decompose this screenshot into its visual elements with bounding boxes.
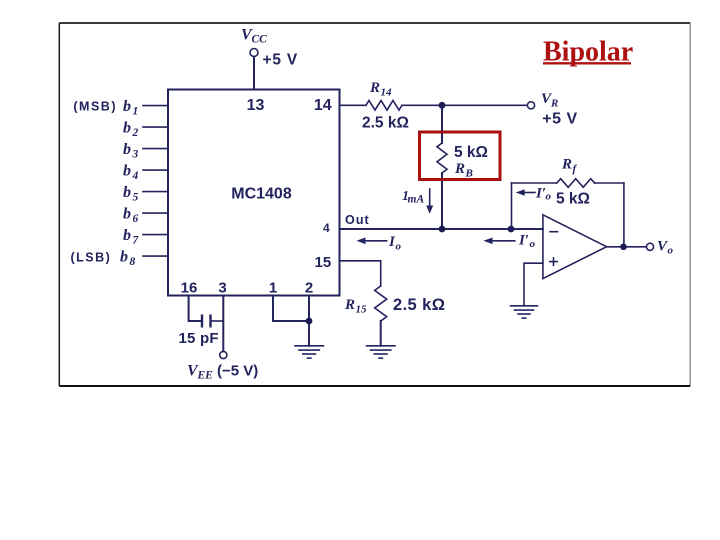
svg-text:4: 4 [323,221,330,235]
svg-text:1: 1 [133,106,139,118]
label I'o upper [535,186,552,203]
Vo terminal [646,243,653,250]
resistor R14 [366,101,402,111]
svg-text:b: b [123,141,131,158]
VCC terminal [250,49,258,57]
wire pin 16 down [189,296,202,322]
svg-text:2: 2 [305,280,313,297]
svg-text:b: b [123,162,131,179]
svg-text:14: 14 [381,87,393,99]
wire pin 1 down and right [273,296,309,322]
svg-text:o: o [546,190,552,202]
wire stub b2 [143,126,167,128]
svg-text:2.5 kΩ: 2.5 kΩ [393,296,445,314]
wire stub b7 [143,234,167,236]
label (LSB) b8 [71,248,136,268]
ground (op-amp plus input) [511,306,538,318]
wire stub b5 [143,191,167,193]
svg-text:5 kΩ: 5 kΩ [556,190,590,207]
wire stub b6 [143,212,167,214]
svg-text:b: b [123,205,131,222]
current arrow I'o upper (left) [516,189,535,196]
svg-text:15 pF: 15 pF [179,330,219,347]
svg-text:b: b [123,184,131,201]
current arrow 1mA (down) [426,189,433,214]
svg-text:b: b [123,119,131,136]
wire pin 15 to R15 [340,261,381,286]
current arrow I'o lower (left) [484,238,515,245]
node junction feedback/output [620,244,627,251]
label R14 [369,80,392,99]
svg-text:o: o [530,238,536,250]
svg-text:R: R [344,297,355,313]
svg-text:(MSB): (MSB) [73,100,117,114]
svg-text:o: o [396,241,402,253]
wire feedback down to output [623,183,625,247]
label b7 [123,227,140,247]
wire junction to RB [441,105,443,143]
wire pin 14 to R14 [340,104,366,106]
VR terminal [527,102,534,109]
svg-text:(−5 V): (−5 V) [217,362,258,379]
wire stub b8 [143,255,167,257]
svg-text:7: 7 [133,235,140,247]
wire stub b4 [143,169,167,171]
current arrow Io (left) [357,238,387,245]
label I'o lower [518,232,536,250]
svg-text:2.5 kΩ: 2.5 kΩ [362,115,409,132]
wire feedback top left segment [512,182,557,184]
node junction RB/out [439,226,446,233]
resistor RB [437,143,447,173]
svg-text:2: 2 [132,127,139,139]
wire pin 2 down to ground [308,296,310,346]
wire capacitor to pin 3 line [211,320,224,322]
svg-text:R: R [550,98,558,110]
wire RB to out node [441,173,443,229]
wire feedback top right segment [595,182,624,184]
highlight red box around RB [420,132,501,180]
svg-text:B: B [465,168,473,180]
svg-text:CC: CC [252,34,268,46]
label b4 [123,162,139,182]
node junction feedback/out [508,226,515,233]
svg-text:4: 4 [132,170,139,182]
svg-text:Out: Out [345,213,370,227]
svg-text:5 kΩ: 5 kΩ [454,144,488,161]
label Vo [657,239,674,257]
svg-text:16: 16 [181,280,198,297]
svg-text:R: R [369,80,380,96]
svg-text:13: 13 [247,97,265,114]
wire feedback up from out node [511,183,513,229]
label b6 [123,205,139,225]
resistor R15 [375,286,387,321]
wire pin 3 down to VEE [222,296,224,352]
label VR [541,91,558,110]
svg-text:15: 15 [356,304,368,316]
label (MSB) b1 [73,98,138,118]
svg-text:14: 14 [314,97,332,114]
svg-text:EE: EE [197,369,214,381]
node junction pin1/pin2 [306,318,313,325]
svg-text:+5 V: +5 V [263,52,299,69]
label R15 [344,297,367,316]
svg-text:I′: I′ [535,186,546,202]
op-amp plus sign [550,258,557,265]
label b5 [123,184,139,204]
capacitor C1 15 pF [202,315,211,328]
VCC label [241,27,267,46]
label 1 mA [402,189,424,206]
svg-text:b: b [123,227,131,244]
wire stub b3 [143,148,167,150]
label RB [454,161,473,180]
svg-text:6: 6 [133,213,139,225]
svg-text:8: 8 [130,256,136,268]
svg-text:5: 5 [133,192,139,204]
svg-text:(LSB): (LSB) [71,250,112,264]
svg-text:1: 1 [269,280,277,297]
wire pin 4 out line [340,228,543,230]
op-amp minus sign [550,231,558,233]
label Rf [561,157,578,176]
wire R14 to VR terminal [402,104,528,106]
frame border of figure [59,23,690,386]
label b2 [123,119,139,139]
svg-text:I′: I′ [518,232,529,248]
wire VCC to pin 13 [253,57,255,90]
svg-text:b: b [123,98,131,115]
wire R15 to ground [380,321,382,346]
svg-text:3: 3 [218,280,226,297]
VEE terminal [220,351,227,358]
wire op-amp plus input [524,263,543,306]
svg-text:R: R [454,161,465,177]
wire op-amp output [607,246,647,248]
resistor Rf [557,179,595,188]
svg-text:MC1408: MC1408 [231,186,292,203]
IC U1 MC1408 body [168,90,340,296]
svg-text:3: 3 [132,149,139,161]
ground (R15) [367,346,396,358]
svg-text:o: o [668,245,674,257]
node junction R14/RB [439,102,446,109]
label b3 [123,141,139,161]
label Io [388,234,402,253]
op-amp U2 [543,215,607,279]
svg-text:+5 V: +5 V [542,111,577,128]
svg-text:R: R [561,157,572,173]
svg-text:b: b [120,248,128,265]
svg-text:f: f [573,163,578,175]
label VEE (-5 V) [187,362,258,381]
ground (pin 2) [295,346,324,358]
svg-text:15: 15 [315,254,332,271]
svg-text:mA: mA [408,194,425,206]
title Bipolar [543,37,633,68]
wire stub b1 [143,105,167,107]
